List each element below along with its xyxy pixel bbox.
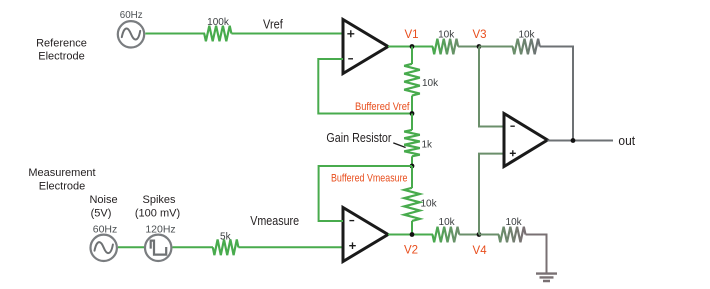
svg-text:V3: V3 (472, 29, 486, 41)
resistor R7 5k (213, 232, 239, 256)
svg-text:Spikes: Spikes (142, 194, 176, 206)
wire VS1 to resistor R1 (145, 33, 205, 35)
svg-text:Electrode: Electrode (39, 181, 85, 193)
wire U2 output to node V2 (388, 234, 433, 236)
wire V1 down to R4 (411, 47, 413, 65)
svg-text:60Hz: 60Hz (120, 9, 143, 21)
svg-text:120Hz: 120Hz (145, 224, 175, 236)
wire V3 to resistor R3 (479, 46, 513, 48)
svg-text:V4: V4 (473, 245, 488, 257)
label Measurement Electrode (28, 167, 95, 192)
wire R5 to Buffered Vmeasure node (411, 156, 413, 166)
svg-text:Measurement: Measurement (28, 167, 95, 179)
label Reference Electrode (36, 38, 87, 63)
svg-text:100k: 100k (207, 17, 230, 28)
wire R7 to op-amp U2 +in, node Vmeasure (238, 246, 343, 248)
resistor R2 10k (V1 to V3) (433, 29, 459, 54)
svg-text:10k: 10k (518, 29, 535, 40)
resistor R3 10k (V3 to out feedback) (513, 29, 540, 54)
svg-text:Gain Resistor: Gain Resistor (326, 130, 392, 145)
wire V4 up to U3 +in (479, 154, 504, 235)
wire VS2 to VS3 (118, 246, 144, 248)
wire R2 to node V3 (458, 46, 479, 48)
resistor R1 100k (204, 17, 231, 41)
wire R8 to node V4 (459, 234, 479, 236)
wire Buffered Vref to gain resistor R5 (411, 114, 413, 131)
voltage source VS1 60Hz (reference) (118, 9, 144, 47)
node out junction (571, 138, 576, 143)
node V2 (404, 232, 418, 256)
voltage source VS2 60Hz noise (91, 224, 118, 261)
wire U1 output to node V1 (388, 46, 433, 48)
svg-text:5k: 5k (220, 232, 232, 243)
wire R3 to out node (feedback around U3) (540, 47, 573, 141)
wire U2 feedback: -in to Buffered Vmeasure node (319, 166, 412, 221)
svg-text:Vref: Vref (263, 17, 283, 31)
wire R6 to node V2 (411, 221, 413, 235)
node Buffered Vref (355, 101, 414, 116)
svg-text:10k: 10k (421, 199, 438, 210)
svg-text:Reference: Reference (36, 38, 87, 50)
svg-text:60Hz: 60Hz (93, 224, 118, 236)
voltage source VS3 120Hz spikes (145, 224, 176, 261)
svg-text:1k: 1k (422, 139, 434, 150)
svg-text:out: out (618, 134, 635, 148)
svg-text:Buffered Vref: Buffered Vref (355, 101, 410, 113)
label Noise (5V) (89, 194, 117, 220)
op-amp U3 (difference amplifier) (504, 114, 548, 167)
node V3 (472, 29, 486, 49)
svg-text:Electrode: Electrode (38, 50, 84, 62)
node V1 (404, 29, 418, 49)
wire R4 to Buffered Vref node (411, 96, 413, 114)
wire VS3 to resistor R7 (173, 246, 214, 248)
resistor R6 10k (Buffered Vmeasure to V2) (404, 188, 437, 221)
label Spikes (100 mV) (135, 194, 180, 220)
svg-text:Noise: Noise (89, 194, 117, 206)
node Buffered Vmeasure (331, 164, 414, 185)
wire U3 output to out (548, 140, 614, 142)
resistor R5 1k (gain resistor) (404, 130, 433, 156)
wire V3 down to U3 -in (479, 47, 504, 127)
label Gain Resistor with pointer (326, 130, 405, 147)
resistor R8 10k (V2 to V4) (433, 217, 460, 242)
resistor R4 10k (V1 to Buffered Vref) (404, 64, 439, 96)
svg-text:10k: 10k (506, 217, 523, 228)
svg-text:V2: V2 (404, 244, 418, 256)
svg-text:10k: 10k (438, 29, 455, 40)
svg-text:10k: 10k (439, 217, 456, 228)
svg-text:V1: V1 (404, 29, 418, 41)
wire Buffered Vmeasure to R6 (411, 166, 413, 188)
wire R9 to ground (526, 235, 547, 274)
ground symbol (536, 274, 557, 281)
svg-text:(5V): (5V) (91, 208, 112, 220)
svg-text:10k: 10k (422, 78, 439, 89)
svg-text:Vmeasure: Vmeasure (250, 214, 299, 228)
wire R1 to op-amp U1 +in, node Vref (231, 33, 343, 35)
op-amp U2 (buffer for Vmeasure) (343, 208, 388, 262)
wire U1 feedback: -in to Buffered Vref node (318, 59, 412, 114)
svg-text:Buffered Vmeasure: Buffered Vmeasure (331, 173, 408, 185)
wire V4 to resistor R9 (479, 234, 499, 236)
op-amp U1 (buffer for Vref) (343, 20, 388, 74)
svg-text:(100 mV): (100 mV) (135, 208, 180, 220)
node V4 (473, 232, 488, 257)
resistor R9 10k (V4 to ground) (499, 217, 526, 242)
